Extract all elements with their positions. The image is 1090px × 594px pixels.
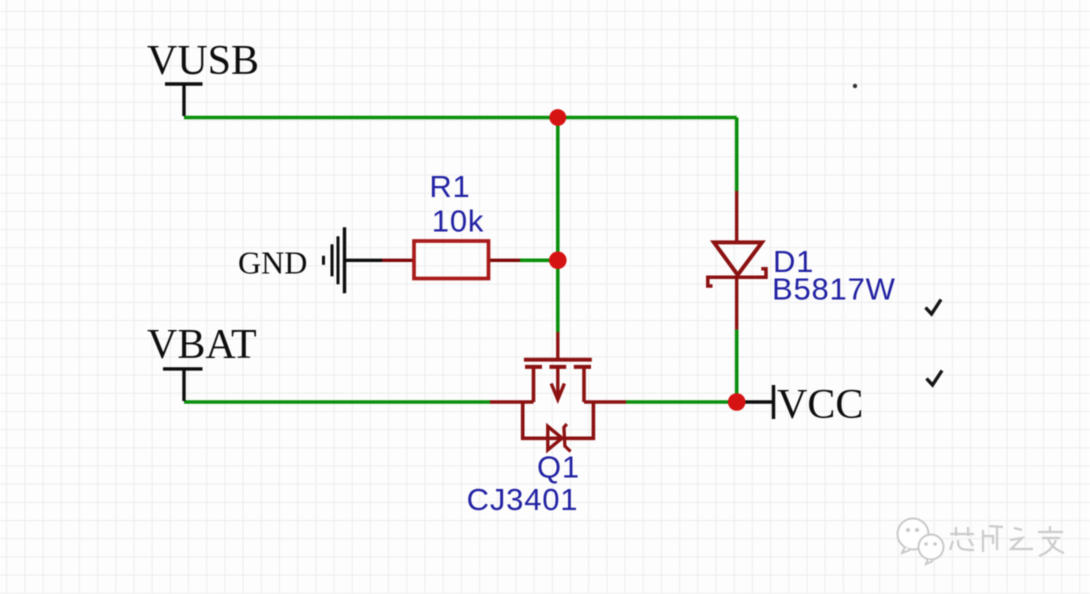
port VUSB	[165, 84, 203, 116]
svg-text:VBAT: VBAT	[147, 322, 257, 368]
svg-text:VUSB: VUSB	[147, 38, 259, 84]
watermark logo bubbles	[898, 519, 944, 565]
wire VBAT bottom horizontal	[184, 400, 490, 404]
diode D1 B5817W schottky	[708, 191, 766, 330]
checkmark 1	[926, 300, 942, 315]
wire Q1 drain to VCC node	[626, 400, 737, 404]
svg-text:10k: 10k	[432, 204, 484, 239]
wire D1 cathode to VCC node	[735, 330, 739, 402]
junction node VCC	[728, 393, 746, 411]
ground GND	[324, 227, 345, 293]
svg-text:Q1: Q1	[537, 450, 580, 485]
port VCC	[737, 385, 774, 419]
port VBAT	[163, 369, 203, 401]
transistor Q1 PMOS	[490, 332, 626, 452]
checkmark 2	[927, 371, 943, 386]
wire resistor to gate node	[520, 258, 558, 262]
wire GND to R1	[346, 259, 382, 262]
junction node VUSB/gate	[549, 109, 566, 126]
svg-text:GND: GND	[238, 245, 307, 281]
junction node R1/gate	[549, 251, 567, 269]
wire gate branch vertical	[556, 118, 560, 333]
svg-text:B5817W: B5817W	[772, 272, 896, 307]
resistor R1	[382, 241, 520, 279]
wire right vertical drop to D1	[735, 118, 739, 192]
stray dot	[853, 84, 857, 88]
wire VUSB top horizontal	[184, 116, 737, 120]
svg-text:CJ3401: CJ3401	[467, 482, 579, 517]
svg-text:R1: R1	[429, 169, 470, 204]
watermark text 芯片之家	[950, 526, 1064, 556]
svg-text:VCC: VCC	[777, 382, 863, 428]
